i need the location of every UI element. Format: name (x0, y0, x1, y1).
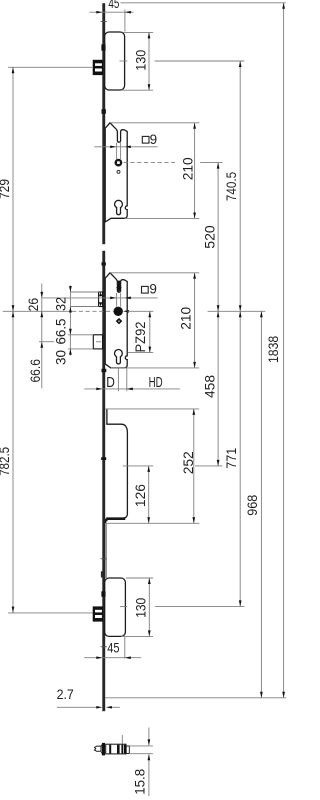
square-9 label E3 (142, 282, 157, 297)
latch bolt E1 (93, 60, 102, 74)
E2 slot guide lines (117, 143, 121, 159)
rail junction nub above E5 (101, 571, 103, 577)
svg-text:66.6: 66.6 (28, 359, 43, 383)
dim 782.5 (0, 311, 14, 612)
label D (84, 368, 180, 391)
main centerline: solid left, dashed (3, 310, 266, 313)
E2 follower ring (115, 159, 123, 167)
dim 210 upper (180, 123, 196, 219)
svg-text:D: D (106, 375, 115, 391)
svg-text:32: 32 (53, 297, 68, 311)
dim 771 (224, 311, 241, 606)
svg-text:26: 26 (26, 298, 41, 312)
E3 follower (filled) (114, 307, 123, 316)
latch E5 centerline (8, 612, 93, 614)
svg-text:66.5: 66.5 (53, 319, 68, 345)
faceplate junction marks and screw holes (101, 22, 107, 647)
svg-text:252: 252 (181, 451, 196, 474)
svg-text:9: 9 (149, 282, 157, 297)
dim 520 (202, 163, 219, 312)
svg-text:210: 210 (180, 157, 195, 180)
svg-text:740.5: 740.5 (224, 172, 239, 201)
gear case E2 (105, 123, 127, 222)
E2 small hole (117, 170, 120, 173)
svg-text:PZ92: PZ92 (133, 322, 148, 353)
svg-text:130: 130 (133, 50, 148, 71)
main case E3 (105, 273, 127, 368)
latch bolt E5 (93, 607, 102, 621)
svg-text:729: 729 (0, 179, 12, 199)
dim 252 (181, 409, 196, 523)
E3 slot guide lines (117, 293, 121, 307)
dim 26 and 66.6 line (26, 284, 54, 389)
additional lock E4 (105, 409, 127, 523)
E3 screw diamond (116, 318, 123, 325)
dim 45 bottom (84, 636, 141, 659)
dim 130 bottom (133, 578, 150, 636)
svg-text:210: 210 (179, 307, 194, 330)
PZ92 dim (128, 311, 153, 352)
E3 keyhole (115, 350, 123, 364)
dim 968 (245, 311, 263, 698)
svg-text:130: 130 (133, 598, 148, 618)
faceplate (102, 3, 105, 711)
svg-text:968: 968 (245, 495, 260, 516)
dim 1838 (266, 3, 285, 698)
svg-text:9: 9 (150, 132, 158, 147)
section view: vertical reference (121, 735, 123, 744)
svg-text:2.7: 2.7 (57, 687, 74, 702)
latch case E5 (105, 578, 128, 636)
svg-text:1838: 1838 (266, 336, 281, 363)
top extension line y2.8 (121, 2, 286, 4)
square-9 label E2 (142, 132, 157, 147)
latch E1 centerline (8, 66, 93, 68)
svg-text:15.8: 15.8 (133, 769, 148, 795)
svg-text:520: 520 (202, 225, 217, 249)
svg-text:782.5: 782.5 (0, 447, 12, 476)
E4 top edge extension (105, 408, 199, 410)
dim 126 (133, 466, 150, 523)
right side reference lines (105, 32, 286, 697)
svg-text:458: 458 (202, 375, 217, 398)
dimension 45 top (90, 0, 134, 32)
svg-text:45: 45 (108, 0, 119, 11)
E2 follower dashed centerline (124, 162, 175, 164)
rail second line between element4 and element5 (105, 523, 107, 578)
E3 slot arrow (116, 281, 121, 293)
label 2.7 and faceplate thickness dim (57, 687, 120, 708)
E4 mid reference line (123, 465, 153, 467)
dim 15.8 (130, 728, 153, 797)
latch case E1 (105, 32, 128, 90)
E2 slot width dim line (94, 145, 157, 148)
E4 bottom edge extension (105, 522, 199, 524)
svg-text:30: 30 (53, 350, 68, 365)
svg-text:45: 45 (107, 640, 119, 655)
dim 32 66.5 30 line (53, 286, 71, 366)
section view: latch tip (95, 746, 102, 751)
E3 latch center dim line with slot arrows (42, 297, 158, 300)
svg-text:HD: HD (149, 375, 163, 391)
svg-text:771: 771 (224, 448, 239, 469)
E3 deadbolt (68, 335, 103, 349)
E3 latch bolt (70, 292, 102, 307)
dim 130 top (133, 32, 150, 90)
dim 729 (0, 67, 14, 311)
svg-text:126: 126 (133, 484, 148, 507)
section view: lock body (106, 744, 130, 754)
E2 keyhole (115, 200, 123, 214)
section view: faceplate (black) (102, 743, 105, 756)
dim 458 (202, 311, 219, 466)
dim 740.5 (224, 61, 241, 311)
dim 210 lower (179, 273, 196, 368)
